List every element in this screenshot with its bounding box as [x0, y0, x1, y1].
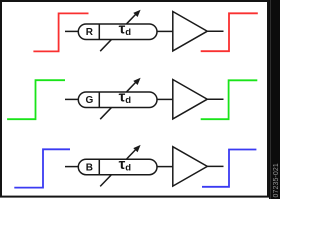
svg-text:G: G [86, 95, 94, 106]
svg-text:R: R [86, 27, 94, 38]
svg-text:07235-021: 07235-021 [273, 163, 280, 197]
svg-text:B: B [86, 162, 93, 173]
